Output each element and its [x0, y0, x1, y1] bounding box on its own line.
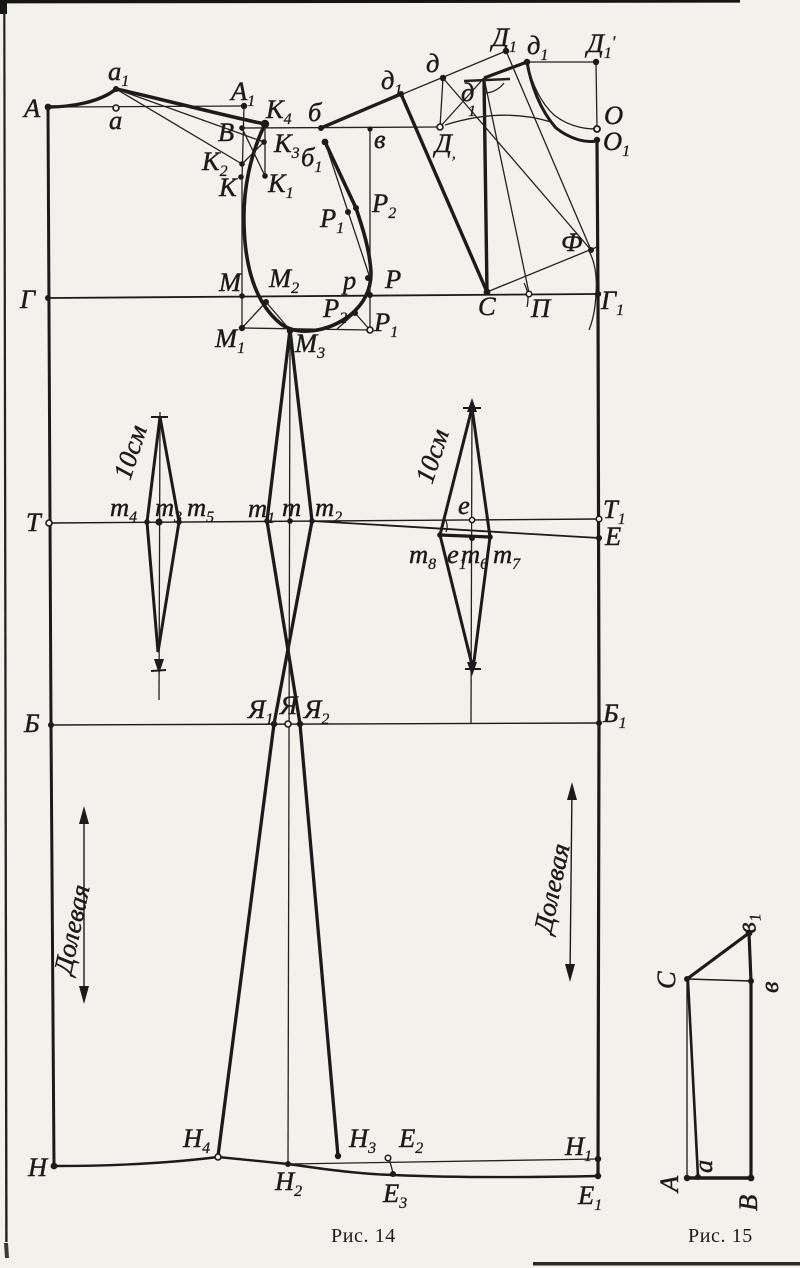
node fig15 B [748, 1175, 755, 1182]
wire dart leg d1v-C [484, 78, 487, 292]
wire vertical д-Д [440, 78, 443, 127]
wire hip line Б-Б1 [51, 723, 599, 725]
wire right edge O1-E1 [597, 140, 599, 1176]
wire M2-M1 [242, 302, 266, 328]
wire bodice-skirt zigzag m1 side [267, 330, 338, 1156]
wire shoulder a1-K4 [116, 89, 265, 124]
wire б-Д1 [321, 51, 506, 128]
node m5 [176, 519, 182, 525]
svg-text:т: т [282, 492, 301, 522]
wire B-Д horizontal [242, 127, 440, 128]
wire grain arrow left heads [79, 806, 89, 1004]
node б1 [322, 139, 329, 146]
wire right dart bottom tick [465, 668, 481, 670]
node Б [48, 722, 54, 728]
svg-text:А: А [654, 1175, 684, 1194]
node a1 [113, 86, 119, 92]
svg-text:р: р [341, 265, 356, 295]
node m2 [309, 518, 315, 524]
node fig15 в [748, 978, 754, 984]
node Д1 [503, 48, 509, 54]
wire д1v-Д [440, 78, 484, 127]
node Н3 [335, 1153, 341, 1159]
node K1 [262, 173, 268, 179]
wire grain arrow right [570, 786, 572, 978]
wire dart leg d1-C [401, 94, 487, 292]
wire shoulder b-d1 [321, 94, 401, 128]
wire m8-m7 thick segment [440, 535, 490, 537]
node P2 lower [352, 310, 358, 316]
node m6 [469, 535, 475, 541]
wire vertical в-P1low [369, 129, 371, 330]
svg-text:С: С [651, 971, 681, 989]
node fig15 A [684, 1175, 690, 1181]
wire E2-E3 tick [389, 1158, 393, 1173]
node O1 [594, 137, 600, 143]
svg-text:Н: Н [27, 1152, 49, 1182]
node K3 [261, 139, 267, 145]
node T [46, 520, 52, 526]
wire neck curve A-a1 [48, 89, 116, 107]
wire left dart bottom arrowhead [154, 659, 164, 674]
node M1 [239, 325, 245, 331]
svg-text:Д1': Д1' [584, 28, 616, 62]
node m1 [264, 518, 270, 524]
node Г1 [595, 291, 601, 297]
wire P2low-P1low [355, 313, 370, 330]
wire grain arrow left [83, 810, 85, 1000]
wire left waist dart legs [147, 417, 179, 652]
node fig15 a [695, 1174, 701, 1180]
node Я1 [271, 721, 277, 727]
wire neck curve d1b-O1 thick [527, 62, 597, 141]
wire б1-P [325, 142, 370, 278]
svg-text:А: А [22, 93, 41, 123]
node Д [437, 124, 443, 130]
wire fig15 A-B [687, 1176, 751, 1179]
wire right waist dart legs [440, 408, 490, 669]
svg-text:Ф: Ф [561, 227, 582, 257]
node Н4 [215, 1154, 221, 1160]
svg-text:д: д [426, 48, 439, 78]
node Я [285, 721, 291, 727]
svg-text:М: М [218, 267, 243, 297]
node д1b [524, 59, 530, 65]
wire a1-K3 [116, 89, 264, 142]
node Г [45, 295, 51, 301]
node б [318, 125, 324, 131]
wire fig15 C-в [687, 979, 751, 981]
wire fig15 в1-в-B [749, 933, 751, 1178]
node Н2 [285, 1161, 291, 1167]
node д1 [398, 91, 404, 97]
wire armhole pear K4-M3-b1 [244, 124, 371, 331]
page border left rule [3, 10, 7, 1242]
svg-text:в: в [754, 981, 784, 993]
node C [484, 289, 491, 296]
node P1 lower [367, 327, 373, 333]
wire neck curve d1b-O thin [527, 62, 596, 129]
node M [239, 293, 245, 299]
node Н [51, 1163, 58, 1170]
wire centerline M3-H2 [288, 331, 290, 1164]
svg-text:Т: Т [26, 507, 43, 537]
node m [287, 518, 293, 524]
node P2 upper [353, 205, 359, 211]
svg-text:П: П [530, 293, 552, 323]
svg-text:а: а [688, 1160, 718, 1173]
page border top bar [0, 0, 740, 14]
wire P2low-left [337, 313, 355, 329]
wire chest line Г-Г1 [48, 294, 598, 298]
node Н1 [595, 1156, 601, 1162]
svg-text:а: а [109, 105, 122, 135]
node Е3 [390, 1171, 396, 1177]
node Ф [588, 247, 594, 253]
wire vertical A1-M1 [242, 106, 244, 328]
page border bottom-left hook [4, 1243, 9, 1258]
wire H2-H1 [288, 1159, 598, 1164]
wire left dart bottom tick [151, 670, 166, 671]
svg-text:е: е [458, 490, 470, 520]
wire vertical Д1'-O [596, 62, 597, 129]
wire left dart top tick [151, 416, 168, 418]
node M3 [287, 328, 293, 334]
wire hem H2-E3-E1 [288, 1164, 598, 1177]
svg-text:б: б [308, 97, 323, 127]
wire right dart bottom arrowhead [467, 662, 477, 676]
wire arc angle at д1v [486, 83, 504, 93]
wire dart side m2-E [312, 521, 599, 538]
node П [526, 291, 532, 297]
wire fig15 C-A [686, 979, 688, 1178]
node Е1 [595, 1173, 601, 1179]
node m7 [487, 534, 493, 540]
node д [440, 75, 446, 81]
node K [238, 174, 244, 180]
svg-text:В: В [218, 117, 234, 147]
wire centerline right dart [471, 403, 472, 723]
wire centerline left dart [159, 412, 160, 700]
node K4 [261, 120, 269, 128]
node m3 [155, 518, 162, 525]
wire right dart top arrowhead [467, 398, 477, 412]
wire fig15 C-в1 [687, 933, 749, 979]
wire left edge A-H [48, 107, 54, 1166]
wire B-K1 [242, 128, 265, 176]
svg-text:в: в [374, 124, 386, 154]
wire д1v-П [484, 78, 529, 293]
wire hem H-H4-H2 [54, 1157, 288, 1166]
node a [113, 105, 119, 111]
node O [594, 126, 600, 132]
node m4 [144, 519, 150, 525]
wire tick e1 [444, 518, 447, 532]
wire arc at Ф-Г1 [589, 251, 596, 330]
node A1 [241, 103, 247, 109]
wire vertical K4-K1 [264, 124, 266, 176]
wire right dart top tick [463, 407, 481, 409]
node Б1 [596, 720, 602, 726]
svg-text:Я: Я [279, 690, 299, 720]
page border bottom-right bar [533, 1262, 800, 1266]
node M2 [263, 299, 269, 305]
node P1 upper [345, 209, 351, 215]
wire K2-K3 [242, 142, 264, 164]
wire M1-P1low [242, 328, 370, 330]
node p [365, 275, 371, 281]
wire fig15 C-a [688, 981, 698, 1177]
svg-text:Е: Е [604, 521, 621, 551]
svg-text:В: В [733, 1195, 763, 1211]
wire M2-M3 [266, 302, 290, 330]
node E [596, 535, 602, 541]
node P [367, 292, 373, 298]
wire Д1-Ф [506, 51, 591, 250]
wire arc through Д [445, 115, 551, 125]
svg-text:Р: Р [384, 264, 401, 294]
wire arc tick at П [524, 283, 528, 307]
node B [239, 125, 245, 131]
wire grain arrow right heads [565, 782, 577, 982]
node T1 [596, 516, 602, 522]
wire д-Ф [443, 78, 591, 250]
wire a1-K2 [116, 89, 242, 164]
node Д1' [593, 59, 599, 65]
node Я2 [297, 721, 303, 727]
wire A-A1 [48, 106, 244, 107]
node K2 [239, 161, 245, 167]
node в [367, 126, 372, 131]
label д1v [461, 77, 476, 120]
wire д1b-Д1' [527, 61, 596, 63]
svg-text:С: С [478, 291, 496, 321]
svg-text:К: К [218, 172, 238, 202]
node fig15 C [684, 976, 690, 982]
svg-text:Б: Б [23, 708, 40, 738]
node e [469, 517, 474, 522]
node Е2 [385, 1155, 391, 1161]
wire C-Ф [487, 247, 597, 292]
svg-text:Рис. 14: Рис. 14 [331, 1225, 396, 1247]
svg-text:1: 1 [468, 103, 476, 120]
node fig15 в1 [746, 930, 753, 937]
svg-text:Рис. 15: Рис. 15 [688, 1225, 753, 1247]
node m8 [437, 532, 443, 538]
node A [45, 104, 52, 111]
wire bodice-skirt zigzag m2 side [218, 330, 312, 1156]
wire waist line T-T1 [49, 519, 599, 523]
wire shoulder d1v-d1b [484, 62, 527, 78]
wire tick at д1v [464, 79, 510, 81]
svg-text:Г: Г [19, 284, 36, 314]
